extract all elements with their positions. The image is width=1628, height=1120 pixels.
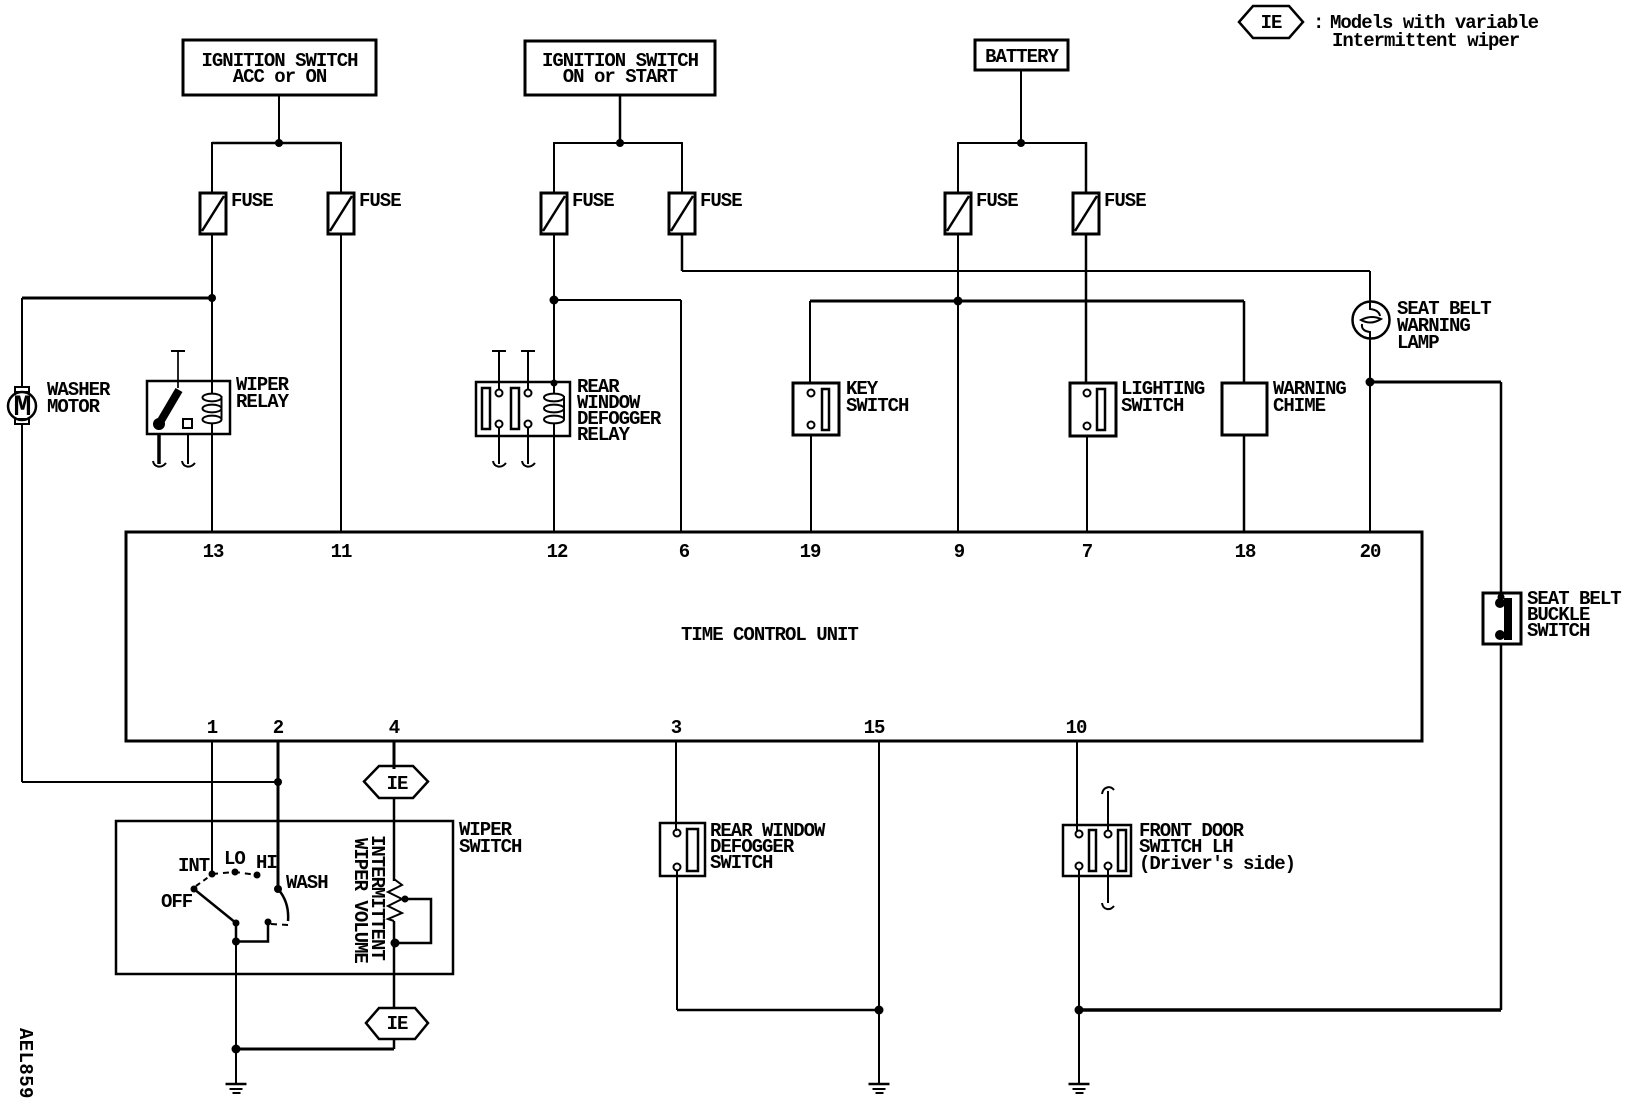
svg-text:2: 2 <box>273 717 284 739</box>
svg-text:19: 19 <box>800 541 821 563</box>
key switch S1 <box>793 383 839 435</box>
svg-text:18: 18 <box>1235 541 1256 563</box>
wire BATTERY branch horizontal <box>958 142 1086 144</box>
wire TCU pin 1 to INT contact <box>211 741 213 871</box>
svg-text:SWITCH: SWITCH <box>459 836 522 858</box>
wire to fuse 5 <box>957 142 959 194</box>
label INTERMITTENT WIPER VOLUME (vertical) <box>349 835 388 963</box>
label WARNING CHIME <box>1273 378 1346 417</box>
time control unit U2 <box>126 532 1422 741</box>
relay contact square <box>183 419 192 428</box>
svg-text:SWITCH: SWITCH <box>1527 620 1590 642</box>
wire key switch to TCU pin 19 <box>810 435 812 532</box>
svg-text:OFF: OFF <box>161 891 193 913</box>
legend text <box>1313 12 1539 52</box>
legend IE hexagon <box>1239 6 1303 38</box>
wire node A to wiper relay coil <box>211 298 213 382</box>
wire from ACC box down <box>278 95 280 143</box>
svg-text:IE: IE <box>387 773 408 795</box>
terminal down <box>1107 870 1109 903</box>
svg-text:FUSE: FUSE <box>359 190 401 212</box>
wire to ground 3 <box>1078 1010 1080 1083</box>
label LIGHTING SWITCH <box>1121 378 1205 417</box>
wiper relay K1 <box>147 351 230 467</box>
node BATTERY branch <box>1017 139 1025 147</box>
wire warning chime top <box>1243 301 1246 383</box>
source box BATTERY <box>975 40 1068 70</box>
node A junction washer motor branch <box>208 294 216 302</box>
svg-text:WASH: WASH <box>286 872 328 894</box>
svg-text:TIME CONTROL UNIT: TIME CONTROL UNIT <box>681 624 858 646</box>
svg-text:ON or START: ON or START <box>563 66 678 88</box>
svg-text:6: 6 <box>679 541 690 563</box>
wire warning chime to TCU pin 18 <box>1243 435 1246 532</box>
wire TCU pin 2 to WASH contact <box>277 741 280 886</box>
relay coil <box>553 383 555 393</box>
wire from ON/START box down <box>619 95 622 143</box>
wire front door switch down <box>1078 870 1080 1010</box>
wire wiper relay to TCU pin 13 <box>211 434 213 532</box>
label KEY SWITCH <box>846 378 909 417</box>
svg-text:CHIME: CHIME <box>1273 395 1326 417</box>
svg-text:SWITCH: SWITCH <box>846 395 909 417</box>
node coil top <box>551 380 558 387</box>
wire IE to resistor <box>393 798 396 881</box>
wire buckle switch to ground line <box>1500 644 1503 1010</box>
relay coil <box>211 382 213 393</box>
wire to fuse 6 <box>1085 142 1088 194</box>
wire fuse F5 to TCU pin 9 <box>957 234 959 532</box>
svg-text:M: M <box>13 391 30 425</box>
svg-text:9: 9 <box>954 541 965 563</box>
label SEAT BELT BUCKLE SWITCH <box>1527 588 1621 642</box>
wire TCU pin 10 to front door switch <box>1076 741 1078 831</box>
relay armature <box>159 390 179 424</box>
fuse F5 (battery left) <box>945 190 1018 234</box>
source box IGNITION SWITCH ACC or ON <box>183 40 376 95</box>
resistor R1 intermittent wiper volume <box>388 879 402 921</box>
relay slot contact 2 <box>511 388 519 429</box>
svg-text:11: 11 <box>331 541 352 563</box>
wire node D to buckle switch horizontal <box>1370 381 1501 384</box>
wire to fuse 4 <box>681 142 683 194</box>
svg-text:AEL859: AEL859 <box>14 1028 36 1099</box>
svg-text:LO: LO <box>224 848 245 870</box>
wire node B to defogger relay coil <box>553 300 555 383</box>
IE hexagon bottom <box>366 1008 428 1039</box>
svg-text:13: 13 <box>203 541 224 563</box>
svg-text:FUSE: FUSE <box>700 190 742 212</box>
node I pin15 ground junction <box>875 1006 884 1015</box>
svg-text:4: 4 <box>389 717 400 739</box>
seat belt warning lamp L1 <box>1353 302 1390 339</box>
warning chime U1 <box>1222 383 1267 435</box>
relay slot contact 1 <box>482 388 490 429</box>
relay terminal down 1 <box>498 428 500 464</box>
wire defogger relay to TCU pin 12 <box>553 436 555 532</box>
common contact 2 <box>265 919 272 926</box>
wire common link L-shape <box>236 922 268 942</box>
wire from BATTERY box down <box>1020 70 1022 143</box>
wire to fuse 3 <box>553 142 555 194</box>
svg-text:FUSE: FUSE <box>976 190 1018 212</box>
source box IGNITION SWITCH ON or START <box>525 41 715 95</box>
rear window defogger relay K2 <box>476 351 570 467</box>
label WIPER SWITCH <box>459 819 522 858</box>
svg-text:12: 12 <box>547 541 568 563</box>
wire buckle switch down <box>1500 382 1503 593</box>
node B junction pin6 branch <box>550 296 559 305</box>
svg-text:SWITCH: SWITCH <box>1121 395 1184 417</box>
dashed OFF-INT link <box>196 876 210 886</box>
wire tap loop <box>396 899 431 943</box>
svg-text:INT: INT <box>178 855 210 877</box>
ground 1 <box>226 1084 247 1093</box>
svg-text:15: 15 <box>864 717 885 739</box>
ground 2 <box>869 1084 890 1093</box>
seat belt buckle switch S3 <box>1483 593 1521 644</box>
svg-text:1: 1 <box>207 717 218 739</box>
wire key switch top <box>809 301 811 384</box>
svg-text:MOTOR: MOTOR <box>47 396 101 418</box>
svg-text:Intermittent wiper: Intermittent wiper <box>1332 30 1520 52</box>
wire defogger switch to pin15 ground horizontal <box>677 1009 879 1012</box>
switch arm OFF to common <box>194 889 236 923</box>
fuse F3 (ON/START left) <box>541 190 614 234</box>
wire seat belt lamp down to TCU pin 20 <box>1369 338 1371 532</box>
wiper switch box S4 <box>116 821 453 974</box>
wire washer motor to wash contact horizontal <box>22 781 278 783</box>
contact INT <box>209 871 216 878</box>
wire to ground 1 <box>235 1049 237 1083</box>
node C junction on key-chime line <box>954 297 963 306</box>
relay terminal up 1 <box>498 352 500 389</box>
wire fuse F4 horizontal to seat belt lamp <box>682 270 1370 272</box>
label WASHER MOTOR <box>47 379 111 418</box>
wire resistor to IE bottom <box>393 921 396 1008</box>
wire front door to buckle switch horizontal <box>1079 1008 1501 1012</box>
fuse F4 (ON/START right) <box>669 190 742 234</box>
node ON/START branch <box>616 139 624 147</box>
svg-text:(Driver's side): (Driver's side) <box>1139 853 1295 875</box>
wire key switch to warning chime horizontal <box>810 300 1244 303</box>
wire fuse F1 to node A <box>211 234 213 298</box>
wire IE bottom down <box>393 1039 396 1049</box>
relay pin circles <box>496 390 503 397</box>
contact WASH <box>274 885 282 893</box>
svg-text:FUSE: FUSE <box>231 190 273 212</box>
wire fuse F4 down <box>681 234 684 271</box>
svg-text:ACC or ON: ACC or ON <box>233 66 327 88</box>
wire fuse F3 to node B <box>553 234 555 300</box>
lighting switch S2 <box>1070 383 1116 436</box>
ground 3 <box>1069 1084 1090 1093</box>
contact LO <box>232 869 239 876</box>
node D lamp branch <box>1366 378 1375 387</box>
label SEAT BELT WARNING LAMP <box>1397 298 1491 354</box>
svg-text:20: 20 <box>1360 541 1381 563</box>
svg-text:3: 3 <box>671 717 682 739</box>
relay terminal down 2 <box>527 428 529 464</box>
wire TCU pin 15 down <box>878 741 880 1010</box>
svg-text:SWITCH: SWITCH <box>710 852 773 874</box>
wire washer motor down <box>21 424 23 782</box>
svg-text:10: 10 <box>1066 717 1087 739</box>
wire node A to washer motor horizontal <box>22 297 212 300</box>
wire IE to ground junction horizontal <box>236 1048 394 1051</box>
svg-text:FUSE: FUSE <box>572 190 614 212</box>
wire common down to ground junction <box>235 942 237 1050</box>
IE hexagon top <box>364 766 428 798</box>
wire node B horizontal branch <box>554 299 681 301</box>
node G resistor bottom <box>391 939 400 948</box>
label REAR WINDOW DEFOGGER RELAY <box>577 376 662 446</box>
svg-text:BATTERY: BATTERY <box>985 46 1059 68</box>
fuse F6 (battery right) <box>1073 190 1146 234</box>
contact OFF <box>191 886 198 893</box>
node ACC branch <box>275 139 283 147</box>
rear window defogger switch S5 <box>660 823 705 876</box>
relay terminal up 2 <box>527 352 529 389</box>
node E washer motor joins pin2 wire <box>274 778 282 786</box>
common contact 1 <box>233 920 240 927</box>
wire to fuse 2 <box>340 142 342 194</box>
relay terminal down 2 <box>187 434 189 464</box>
wash arm curve <box>278 889 288 921</box>
node H ground junction <box>232 1045 241 1054</box>
svg-text:WIPER VOLUME: WIPER VOLUME <box>349 838 371 963</box>
fuse F1 (ACC left) <box>200 190 273 234</box>
wire fuse F2 to TCU pin 11 <box>340 234 342 532</box>
relay terminal down 1 <box>157 434 161 464</box>
wire ON/START branch horizontal <box>554 142 682 144</box>
wire defogger switch down <box>676 870 678 1010</box>
front door switch S6 <box>1063 787 1131 909</box>
svg-text:IE: IE <box>387 1013 408 1035</box>
node tap of resistor <box>402 896 409 903</box>
wire washer motor top <box>21 298 23 388</box>
wire ACC branch horizontal <box>212 142 341 145</box>
svg-text:LAMP: LAMP <box>1397 332 1439 354</box>
wire to fuse 1 <box>211 142 213 194</box>
wire fuse F6 to lighting switch <box>1085 234 1088 384</box>
dashed selector path INT-LO-HI <box>212 872 257 875</box>
svg-text:FUSE: FUSE <box>1104 190 1146 212</box>
washer motor M1 <box>8 387 36 425</box>
wire lighting switch to TCU pin 7 <box>1086 436 1088 532</box>
label WIPER RELAY <box>236 374 290 413</box>
label REAR WINDOW DEFOGGER SWITCH <box>710 820 826 874</box>
node F common junction <box>232 938 240 946</box>
armature terminal up <box>177 352 179 388</box>
svg-text:RELAY: RELAY <box>236 391 290 413</box>
terminal up <box>1107 791 1109 830</box>
label FRONT DOOR SWITCH LH <box>1139 820 1295 875</box>
wire TCU pin 4 down <box>393 741 396 769</box>
node J front door ground junction <box>1075 1006 1084 1015</box>
fuse F2 (ACC right) <box>328 190 401 234</box>
wire branch down to TCU pin 6 <box>680 300 682 532</box>
svg-text:HI: HI <box>256 852 277 874</box>
dashed wash arm link <box>271 924 288 925</box>
wire seat belt lamp top <box>1369 271 1371 303</box>
svg-text:IE: IE <box>1261 12 1282 34</box>
svg-text::: : <box>1313 12 1323 34</box>
svg-text:RELAY: RELAY <box>577 424 631 446</box>
contact HI <box>254 872 261 879</box>
wire TCU pin 3 to defogger switch <box>675 741 677 831</box>
svg-text:7: 7 <box>1082 541 1093 563</box>
wire to ground 2 <box>878 1010 880 1083</box>
